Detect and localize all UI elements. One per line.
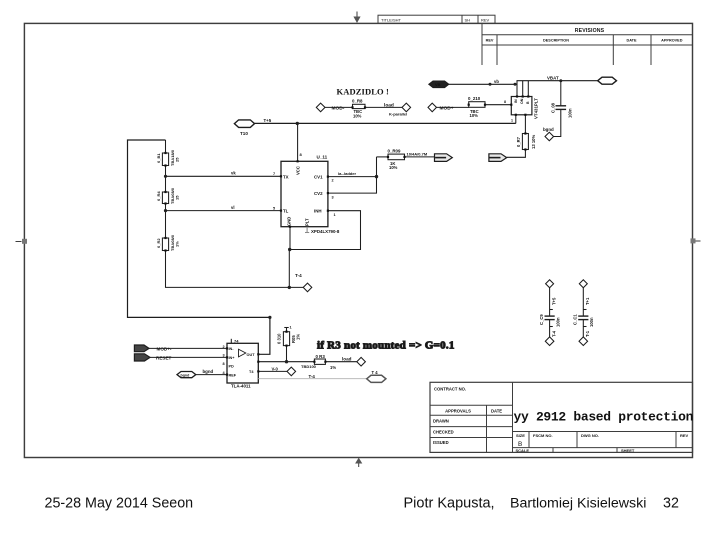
svg-text:Bartlomiej Kisielewski: Bartlomiej Kisielewski — [510, 496, 646, 512]
svg-text:REF: REF — [229, 373, 237, 377]
wire TL row — [166, 210, 282, 212]
svg-text:15: 15 — [175, 195, 180, 200]
junction — [288, 286, 291, 289]
junction — [288, 248, 291, 251]
svg-text:32: 32 — [663, 496, 679, 512]
grey T-4 rail — [258, 378, 366, 380]
wire — [150, 356, 227, 358]
svg-text:0_R09: 0_R09 — [388, 148, 401, 153]
svg-text:T-4: T-4 — [552, 330, 557, 337]
op-amp pin2 row wire — [258, 361, 314, 363]
svg-text:Piotr Kapusta,: Piotr Kapusta, — [404, 496, 495, 512]
svg-text:SCALE: SCALE — [516, 448, 530, 453]
resistor RB1 (vertical) — [156, 149, 180, 166]
junction — [268, 316, 271, 319]
net flag T10 (hexagon) — [234, 120, 254, 136]
port bgnd1 (diamond) — [543, 127, 554, 141]
svg-text:XPD4LX790-8: XPD4LX790-8 — [311, 229, 340, 234]
svg-text:T+5: T+5 — [552, 297, 557, 305]
svg-text:VCC: VCC — [296, 166, 301, 175]
svg-text:TX: TX — [283, 174, 289, 179]
wire — [325, 106, 353, 108]
svg-text:bgnd: bgnd — [203, 369, 214, 374]
cap branch B port top (diamond) — [579, 280, 587, 288]
port P1 (MOD- row left diamond) — [316, 103, 344, 112]
top title strip labels — [381, 17, 490, 22]
svg-text:OUT: OUT — [247, 353, 256, 357]
svg-text:load: load — [342, 356, 352, 361]
svg-text:APPROVED: APPROVED — [661, 39, 683, 43]
svg-text:ON: ON — [520, 98, 524, 104]
pin tick — [583, 309, 586, 311]
wire T10 rail — [255, 122, 516, 124]
wire TX row — [166, 175, 282, 177]
resistor RR09 row wire — [377, 156, 389, 158]
regulator gnd pin wire — [515, 115, 517, 124]
svg-text:CONTRACT NO.: CONTRACT NO. — [434, 386, 466, 391]
svg-text:MOD+: MOD+ — [440, 105, 454, 111]
svg-text:0_R7: 0_R7 — [516, 136, 521, 147]
svg-text:100n: 100n — [556, 317, 561, 327]
svg-text:U_11: U_11 — [317, 155, 328, 160]
svg-text:TITLE/SHT: TITLE/SHT — [381, 17, 402, 22]
wire — [196, 374, 227, 376]
net flag F1 (pennant) — [435, 154, 453, 162]
svg-text:REVISIONS: REVISIONS — [575, 28, 605, 34]
svg-text:10%: 10% — [389, 165, 398, 170]
port P3 (MOD+ diamond) — [428, 103, 454, 112]
svg-text:0 310: 0 310 — [277, 333, 282, 344]
cap branch A port top (diamond) — [546, 280, 554, 288]
junction — [559, 79, 562, 82]
svg-text:IN: IN — [514, 99, 518, 103]
wire — [325, 361, 356, 363]
junction — [375, 175, 378, 178]
resistor R07 (vertical) — [516, 134, 536, 150]
net flag VBAT (hexagon) — [598, 77, 617, 84]
svg-text:1: 1 — [290, 326, 292, 330]
port V-0 (diamond) — [287, 367, 296, 376]
junction — [296, 122, 299, 125]
svg-text:2: 2 — [332, 179, 334, 183]
wire — [485, 104, 511, 106]
svg-text:vl: vl — [231, 205, 235, 210]
svg-text:REV: REV — [680, 433, 689, 438]
svg-text:7: 7 — [273, 172, 275, 176]
svg-text:PLT: PLT — [305, 218, 310, 226]
net flag T-4 (grey hexagon) — [367, 370, 386, 382]
pin tick — [550, 326, 553, 328]
op-amp pin3 wire — [258, 370, 287, 372]
svg-text:0 R3: 0 R3 — [316, 354, 326, 359]
svg-text:TLA-4011: TLA-4011 — [231, 383, 251, 388]
svg-text:0_R4: 0_R4 — [156, 191, 161, 201]
net flag bgnd2 (hexagon) — [177, 372, 196, 378]
U11 PLT pin stub — [305, 227, 309, 233]
svg-text:1: 1 — [511, 119, 513, 123]
svg-text:0_B1: 0_B1 — [156, 153, 161, 163]
svg-text:10%: 10% — [353, 113, 362, 118]
svg-text:100n: 100n — [589, 317, 594, 327]
U11 CV1 wire — [328, 176, 377, 178]
svg-text:CV1: CV1 — [314, 174, 323, 179]
port P4 (diamond) — [357, 357, 366, 366]
svg-text:DESCRIPTION: DESCRIPTION — [543, 39, 569, 43]
wire — [582, 320, 584, 338]
wire — [405, 156, 435, 158]
net flag MOD (filled pennant) — [134, 345, 171, 352]
svg-text:VBAT: VBAT — [547, 75, 559, 80]
svg-text:10/4A/0.7M: 10/4A/0.7M — [407, 151, 428, 156]
junction — [164, 175, 167, 178]
svg-text:V-0: V-0 — [272, 366, 279, 371]
regulator U2 — [511, 97, 538, 120]
svg-text:T-4: T-4 — [309, 374, 316, 379]
svg-text:8: 8 — [504, 100, 506, 104]
U11 GND pin wire — [289, 227, 291, 250]
pin tick — [550, 309, 553, 311]
svg-text:100n: 100n — [568, 108, 573, 118]
resistor RR4 (vertical) — [156, 187, 180, 204]
wire — [149, 347, 227, 349]
feedback loop wire — [128, 140, 270, 354]
wire — [549, 288, 551, 316]
left edge marker — [16, 239, 28, 244]
wire — [165, 204, 167, 239]
annotation KADZIDLO — [337, 86, 389, 96]
cap branch B port bottom (diamond) — [579, 337, 588, 346]
svg-text:ISSUED: ISSUED — [433, 440, 449, 445]
junction — [489, 83, 492, 86]
svg-text:VT431PLT: VT431PLT — [534, 98, 539, 119]
resistor R8 — [352, 98, 365, 118]
svg-text:DRAWN: DRAWN — [433, 419, 449, 424]
op-amp U3 box — [227, 343, 258, 388]
svg-text:25-28 May 2014 Seeon: 25-28 May 2014 Seeon — [45, 496, 194, 512]
top edge marker — [353, 12, 360, 24]
svg-text:bgnd: bgnd — [181, 373, 190, 377]
svg-text:SH: SH — [465, 17, 471, 22]
wire — [549, 320, 551, 338]
component pin dots — [164, 95, 529, 375]
svg-text:0_210: 0_210 — [468, 96, 481, 101]
svg-text:13 10%: 13 10% — [531, 135, 536, 149]
svg-text:T-1: T-1 — [585, 330, 590, 337]
svg-text:T+1: T+1 — [585, 297, 590, 305]
svg-text:T 4: T 4 — [372, 370, 379, 375]
svg-text:if R3 not mounted => G=0.1: if R3 not mounted => G=0.1 — [317, 340, 455, 352]
svg-text:SHEET: SHEET — [621, 448, 635, 453]
TITLE-BLOCK — [430, 382, 694, 453]
svg-text:VB: VB — [435, 82, 441, 87]
svg-text:1%: 1% — [330, 365, 336, 370]
svg-text:INH: INH — [314, 209, 322, 214]
capacitor C09 — [539, 314, 561, 327]
svg-text:REV: REV — [481, 17, 490, 22]
REVISIONS-TABLE — [482, 23, 693, 65]
svg-text:C_08: C_08 — [551, 102, 556, 113]
port P2 (right diamond) — [402, 103, 411, 112]
resistor RR2 (vertical) — [156, 234, 180, 251]
wire VB to regulator — [449, 81, 598, 85]
junction — [514, 83, 517, 86]
regulator out pin wire — [524, 115, 526, 134]
svg-text:KADZIDLO !: KADZIDLO ! — [337, 86, 389, 96]
svg-text:8: 8 — [223, 362, 225, 366]
svg-text:IN+: IN+ — [229, 356, 236, 360]
svg-text:T10: T10 — [240, 131, 248, 136]
capacitor C01 — [573, 314, 595, 327]
junction — [164, 209, 167, 212]
svg-text:la--ladder: la--ladder — [338, 171, 356, 176]
svg-text:MOD-: MOD- — [332, 105, 345, 111]
svg-text:3: 3 — [223, 353, 225, 357]
svg-text:B: B — [526, 101, 530, 104]
pin tick — [583, 326, 586, 328]
svg-text:5: 5 — [273, 206, 275, 210]
svg-text:74: 74 — [234, 339, 239, 344]
svg-text:0_R2: 0_R2 — [156, 238, 161, 248]
junction — [285, 360, 288, 363]
svg-text:TBD100: TBD100 — [301, 364, 317, 369]
regulator top pins — [516, 84, 518, 96]
resistor RR09 — [388, 148, 405, 170]
svg-text:SIZE: SIZE — [516, 433, 525, 438]
svg-text:load: load — [384, 103, 394, 109]
wire — [507, 150, 526, 158]
svg-text:REV: REV — [486, 39, 494, 43]
svg-text:IN-: IN- — [229, 347, 235, 351]
wire — [165, 166, 167, 193]
divider chain top wire — [165, 140, 167, 153]
svg-text:1%: 1% — [296, 334, 301, 340]
wire down to T-4 port — [288, 250, 290, 288]
svg-text:yy 2912 based protection: yy 2912 based protection — [514, 409, 694, 424]
svg-text:PD: PD — [229, 365, 235, 369]
svg-text:bgnd: bgnd — [543, 127, 554, 132]
IC U11 — [281, 155, 340, 234]
bottom edge marker — [355, 458, 362, 467]
svg-text:FSCM NO.: FSCM NO. — [533, 433, 553, 438]
sheet border — [24, 23, 692, 457]
svg-text:10%: 10% — [470, 113, 479, 118]
right edge marker — [691, 238, 701, 243]
U11 CV2 wire — [328, 157, 377, 193]
svg-text:DATE: DATE — [626, 39, 637, 43]
wire chain bottom — [166, 251, 304, 288]
svg-text:CHECKED: CHECKED — [433, 430, 454, 435]
wire — [365, 106, 402, 108]
svg-text:3: 3 — [332, 195, 334, 199]
svg-text:APPROVALS: APPROVALS — [445, 408, 471, 413]
wire — [437, 106, 469, 108]
capacitor C08 — [551, 81, 573, 137]
svg-text:vb: vb — [494, 79, 499, 84]
top title strip box — [378, 15, 495, 23]
cap branch A port bottom (diamond) — [545, 337, 554, 346]
svg-text:25: 25 — [175, 157, 180, 162]
svg-text:vk: vk — [231, 171, 236, 176]
svg-text:1%: 1% — [175, 241, 180, 247]
svg-text:K-parallel: K-parallel — [389, 112, 407, 117]
resistor R210 — [468, 96, 485, 118]
svg-text:T+5: T+5 — [264, 118, 272, 123]
svg-text:T-4: T-4 — [295, 273, 302, 278]
svg-text:C_C9: C_C9 — [539, 314, 544, 325]
svg-text:DATE: DATE — [491, 408, 502, 413]
svg-text:GND: GND — [287, 217, 292, 226]
net flag RESET (filled pennant) — [134, 354, 171, 361]
U11 INH wire — [289, 211, 360, 250]
net flag VB (filled hexagon) — [429, 81, 449, 88]
svg-text:1: 1 — [334, 213, 336, 217]
resistor R310 (vertical) — [277, 326, 301, 362]
net flag F2 (pennant) — [489, 154, 507, 162]
svg-text:DWG NO.: DWG NO. — [581, 433, 599, 438]
svg-text:TL: TL — [283, 209, 289, 214]
svg-text:0_R8: 0_R8 — [352, 98, 363, 103]
svg-text:CV2: CV2 — [314, 191, 323, 196]
svg-text:C_C1: C_C1 — [573, 314, 578, 325]
resistor R3 — [301, 354, 336, 370]
port T-4a (diamond) — [303, 283, 312, 292]
op-amp top stub — [230, 339, 232, 344]
wire — [582, 288, 584, 316]
U11 VCC pin wire — [297, 123, 299, 161]
